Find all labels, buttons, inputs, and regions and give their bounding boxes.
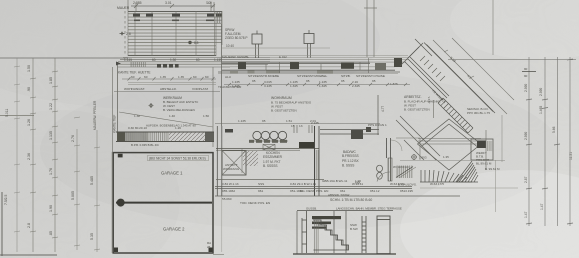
svg-text:60: 60 xyxy=(152,58,156,62)
chain A0 label xyxy=(5,109,9,117)
svg-text:1.26: 1.26 xyxy=(27,119,31,126)
svg-text:SITZFENST.MOEBEL: SITZFENST.MOEBEL xyxy=(297,74,328,78)
svg-text:1.465: 1.465 xyxy=(539,106,543,114)
svg-text:1.35: 1.35 xyxy=(160,75,166,79)
left edge plot line xyxy=(1,192,3,256)
dark threshold rect xyxy=(299,142,314,148)
left dim chain C labels xyxy=(71,135,75,200)
svg-text:2.990: 2.990 xyxy=(539,88,543,96)
survey symbol xyxy=(411,154,427,160)
svg-text:B. VERA.MELDUNGEN: B. VERA.MELDUNGEN xyxy=(163,108,195,112)
kitchen partition xyxy=(241,149,243,174)
entry passage lines xyxy=(418,139,481,145)
svg-text:GARAGE 1: GARAGE 1 xyxy=(161,171,183,176)
wing vertical dim 4.17 xyxy=(433,100,435,118)
left dimension chain B x=55 xyxy=(52,58,58,252)
drain arrow deck left xyxy=(116,62,121,66)
stair note small xyxy=(350,223,358,231)
svg-text:2.8: 2.8 xyxy=(126,32,131,36)
svg-text:60: 60 xyxy=(205,75,209,79)
faint vertical near entry xyxy=(501,115,503,162)
right dim vertical 4 xyxy=(567,57,573,226)
terrace deck with plank hatching xyxy=(128,11,222,56)
right dim vertical 1 labels xyxy=(524,84,528,218)
dim line y=91.5 xyxy=(114,91,220,93)
wing corridor upper wall xyxy=(424,43,495,114)
svg-text:SITZFENST.CHAISE: SITZFENST.CHAISE xyxy=(356,74,385,78)
svg-text:1.26: 1.26 xyxy=(175,126,181,130)
svg-text:SCHN. 1:TB M.1TB 80 B.60: SCHN. 1:TB M.1TB 80 B.60 xyxy=(330,198,372,202)
svg-text:2.8: 2.8 xyxy=(27,223,31,228)
garage 1 label xyxy=(161,171,183,176)
stair section left edge xyxy=(296,211,298,254)
svg-text:WINDFANG: WINDFANG xyxy=(223,167,240,171)
svg-text:2.990: 2.990 xyxy=(524,132,528,140)
svg-text:ABSTELLR.: ABSTELLR. xyxy=(160,87,177,91)
window band labels row xyxy=(218,74,398,89)
rotated dim 4.77 xyxy=(381,106,385,112)
entry corner post xyxy=(477,141,486,149)
small dim mark mid-room xyxy=(291,96,431,128)
svg-text:WOHNRAUM: WOHNRAUM xyxy=(271,96,292,100)
svg-text:ABNSW. SSSW: ABNSW. SSSW xyxy=(328,193,350,197)
left dim chain B labels xyxy=(49,77,53,236)
svg-text:1.40: 1.40 xyxy=(169,114,175,118)
room width dims xyxy=(134,114,209,118)
wing stair ladder rungs xyxy=(438,98,473,133)
svg-text:95: 95 xyxy=(252,79,256,83)
garage small marks bottom right xyxy=(207,241,211,249)
svg-text:W.63.17/5: W.63.17/5 xyxy=(430,182,444,186)
extra joist lines below dim row xyxy=(128,83,216,85)
svg-text:90: 90 xyxy=(524,67,528,71)
svg-text:.85: .85 xyxy=(49,231,53,236)
svg-text:1.51: 1.51 xyxy=(286,119,292,123)
svg-text:1.50: 1.50 xyxy=(27,65,31,72)
svg-text:PPS DRGN 1: PPS DRGN 1 xyxy=(368,123,387,127)
right dim vertical 2 labels xyxy=(539,88,544,210)
svg-text:5.35: 5.35 xyxy=(90,233,94,240)
interior dim labels y=80 xyxy=(131,75,209,79)
counter dark dashes under circles xyxy=(249,140,287,143)
svg-text:1.22: 1.22 xyxy=(49,103,53,110)
masonry note row above band xyxy=(222,55,287,59)
svg-text:1.85: 1.85 xyxy=(49,77,53,84)
garage corner columns xyxy=(114,154,213,252)
stair section top chord xyxy=(297,207,402,211)
svg-text:5.011: 5.011 xyxy=(5,109,9,117)
svg-text:1.76: 1.76 xyxy=(49,168,53,175)
deck posts / joist verticals xyxy=(128,11,222,56)
stair section title xyxy=(328,193,372,202)
svg-text:SITZFENSTR.MOEBE: SITZFENSTR.MOEBE xyxy=(248,74,279,78)
svg-text:26: 26 xyxy=(207,245,211,249)
svg-text:1.35: 1.35 xyxy=(178,75,184,79)
entry stair fan xyxy=(456,161,478,182)
left house verticals xyxy=(113,24,222,152)
cooktop circles xyxy=(251,131,288,141)
wing corner cross xyxy=(400,39,432,66)
right dim vertical 1 xyxy=(526,57,532,226)
glazed wall piers xyxy=(238,58,402,70)
svg-text:GUSSB.: GUSSB. xyxy=(306,207,317,211)
svg-text:95: 95 xyxy=(262,119,266,123)
garage outer walls xyxy=(113,153,213,253)
tree symbol 2.8 xyxy=(120,31,131,36)
faint reference line y=188 xyxy=(420,187,518,189)
svg-text:10 40: 10 40 xyxy=(226,44,234,48)
stairwell arrow xyxy=(396,167,416,179)
svg-text:1.90: 1.90 xyxy=(355,179,361,183)
kamin label block xyxy=(342,150,360,168)
wing end room xyxy=(471,139,493,160)
garage middle column xyxy=(117,199,125,207)
garage 2 label xyxy=(163,227,185,232)
entry fan steps baseline xyxy=(420,170,472,182)
svg-text:.90: .90 xyxy=(27,87,31,92)
wing end room label xyxy=(476,151,492,166)
svg-text:SITZB.: SITZB. xyxy=(341,74,351,78)
deck left edge dashed joist xyxy=(124,11,126,56)
top dim row over kitchen y=123 xyxy=(215,123,380,125)
sekisui note xyxy=(467,107,490,115)
svg-text:ZGED 80.578 P: ZGED 80.578 P xyxy=(225,36,248,40)
svg-text:ARBEITSZ.: ARBEITSZ. xyxy=(404,95,422,99)
svg-text:B. SSSSS: B. SSSSS xyxy=(263,164,278,168)
svg-text:AUFGEH. BODENBELAG 1.345 AT 90: AUFGEH. BODENBELAG 1.345 AT 90 xyxy=(146,124,196,128)
faint reference vertical x=495 xyxy=(495,160,497,212)
lower wing wall diagonals xyxy=(396,116,440,160)
kitchen label block xyxy=(263,151,283,168)
deck top dimension line y=6 xyxy=(131,4,215,8)
svg-text:3.01: 3.01 xyxy=(165,1,172,5)
svg-text:1.135: 1.135 xyxy=(49,131,53,140)
deck drain symbol xyxy=(188,41,198,45)
svg-text:2.36: 2.36 xyxy=(27,153,31,160)
wing dim diagonal 2 xyxy=(452,38,514,100)
svg-text:0.84 W.1.13: 0.84 W.1.13 xyxy=(222,182,239,186)
walkway dark studs xyxy=(157,64,179,68)
left dimension chain A x=33 xyxy=(30,58,36,252)
faint room line right of entry xyxy=(400,160,505,162)
left dimension chain A0 x=17 xyxy=(14,58,20,252)
entry side vertical xyxy=(485,130,487,170)
svg-text:PPX 301.BL.1.75: PPX 301.BL.1.75 xyxy=(467,111,490,115)
svg-text:0.84 29.4 B.W.1.11: 0.84 29.4 B.W.1.11 xyxy=(290,182,316,186)
stair hatch column xyxy=(313,220,319,253)
retaining wall hatched stripe above garage xyxy=(116,132,214,142)
west wall faint continuation xyxy=(221,196,223,252)
b99 level note xyxy=(485,167,500,171)
deck beam dark blocks row xyxy=(133,12,222,23)
svg-text:1.135: 1.135 xyxy=(238,119,246,123)
left dim chain A labels xyxy=(27,65,31,228)
plant symbol xyxy=(149,103,154,108)
svg-text:WOHNUNGST.: WOHNUNGST. xyxy=(124,87,145,91)
svg-text:E.012: E.012 xyxy=(279,55,287,59)
svg-text:95: 95 xyxy=(372,79,376,83)
svg-text:951.12: 951.12 xyxy=(370,189,380,193)
flue x-box xyxy=(263,145,275,151)
lower band dim line y=187 xyxy=(215,187,460,197)
svg-text:KANTE TIEF. HUETTE: KANTE TIEF. HUETTE xyxy=(118,71,151,75)
svg-text:7.5/2.5: 7.5/2.5 xyxy=(4,195,8,205)
svg-text:BL.99.61 M: BL.99.61 M xyxy=(476,162,492,166)
bad/wc wall and fixture xyxy=(377,138,403,182)
axis extension x=493 to page top xyxy=(492,0,494,55)
bottom-left base line xyxy=(0,254,57,256)
svg-text:B.P.B. 0.935 B.BL.DC: B.P.B. 0.935 B.BL.DC xyxy=(131,143,159,147)
walkway small labels xyxy=(124,58,222,62)
svg-text:2.990: 2.990 xyxy=(524,84,528,92)
svg-text:5.005: 5.005 xyxy=(71,191,75,200)
stairwell treads hatch xyxy=(396,166,413,179)
garage note box xyxy=(148,155,209,160)
lower band texts row1 xyxy=(222,179,444,205)
svg-text:0.30 80.20.10: 0.30 80.20.10 xyxy=(128,126,147,130)
walkway band under deck xyxy=(118,58,270,68)
left dimension chain D x=97 xyxy=(94,130,100,252)
svg-text:2.87: 2.87 xyxy=(524,176,528,183)
svg-text:1.90: 1.90 xyxy=(49,205,53,212)
garage bottom faint extension xyxy=(213,254,224,256)
wing dim diagonal 1 xyxy=(433,40,507,114)
svg-text:MAUER: MAUER xyxy=(117,6,130,10)
kitchen west wall xyxy=(217,126,222,196)
floor note xyxy=(131,143,159,147)
post symbol on axis x=257 xyxy=(252,31,262,59)
svg-text:ALU: ALU xyxy=(225,75,231,79)
svg-text:55.060: 55.060 xyxy=(222,197,232,201)
svg-text:MAUERW. PFEILER: MAUERW. PFEILER xyxy=(93,100,97,130)
rotated label KANTE TIEF xyxy=(93,100,117,133)
right dim vertical 2 xyxy=(542,57,548,226)
right dim tick text cluster xyxy=(522,67,536,78)
garage west dim vertical xyxy=(111,152,113,253)
small dark mark left of circles xyxy=(225,129,233,133)
post symbol on axis x=309 xyxy=(304,30,314,58)
svg-text:B. SSSS: B. SSSS xyxy=(342,164,354,168)
svg-text:955-1962: 955-1962 xyxy=(222,189,235,193)
entry hall diamond xyxy=(418,119,482,170)
deck top extension line x=128 to page top xyxy=(127,0,129,11)
right dim vertical 4 label xyxy=(569,152,573,160)
svg-text:2.76: 2.76 xyxy=(71,135,75,142)
svg-text:RG. DENK POS. EN: RG. DENK POS. EN xyxy=(300,189,328,193)
garage middle wall xyxy=(116,202,212,204)
WOHNUNGSTUER dim row xyxy=(124,87,208,91)
walkway hatch ticks xyxy=(130,62,146,67)
right dim horizontal line xyxy=(448,59,576,61)
svg-text:2.385: 2.385 xyxy=(133,1,142,5)
windfang label xyxy=(223,163,240,171)
svg-text:GBB.19A.B.WL.11: GBB.19A.B.WL.11 xyxy=(322,179,348,183)
svg-text:B. GESTUETZTEN: B. GESTUETZTEN xyxy=(271,109,297,113)
svg-text:B.SW: B.SW xyxy=(350,227,358,231)
dim ticks row y=84 xyxy=(224,83,410,86)
svg-text:4.77: 4.77 xyxy=(381,106,385,112)
svg-text:60: 60 xyxy=(144,75,148,79)
svg-text:95: 95 xyxy=(341,79,345,83)
svg-text:5.66: 5.66 xyxy=(552,126,556,133)
stair steps zigzag xyxy=(313,220,349,250)
stair section left post xyxy=(302,211,307,253)
svg-text:60: 60 xyxy=(196,58,200,62)
entry dim label xyxy=(443,155,449,159)
svg-text:B.MAULDVS.: B.MAULDVS. xyxy=(398,183,417,187)
kitchen top dim labels xyxy=(238,119,316,123)
axis extension pair x=367 to page top xyxy=(364,0,377,57)
svg-text:1.30: 1.30 xyxy=(170,58,176,62)
svg-text:90: 90 xyxy=(524,74,528,78)
svg-text:GARAGE 2: GARAGE 2 xyxy=(163,227,185,232)
svg-text:1.50: 1.50 xyxy=(203,114,209,118)
stair base line xyxy=(293,253,396,255)
svg-text:9513.195: 9513.195 xyxy=(400,189,413,193)
KANTE TIEF HUETTE note xyxy=(118,71,151,75)
short reference line left y=116 xyxy=(0,115,34,117)
svg-text:-4.17-: -4.17- xyxy=(427,96,431,104)
svg-text:1.135: 1.135 xyxy=(214,58,222,62)
svg-text:8.8: 8.8 xyxy=(194,41,199,45)
wing corridor note xyxy=(431,89,446,104)
left dim chain D labels xyxy=(90,176,94,240)
left dimension chain C x=77 xyxy=(74,117,80,250)
svg-text:B. 99.61 M: B. 99.61 M xyxy=(485,167,500,171)
long site reference line left xyxy=(0,57,128,59)
svg-text:VORPLATZ: VORPLATZ xyxy=(192,87,208,91)
interior dim line y=81 xyxy=(122,77,216,81)
right dim vertical 3 xyxy=(554,57,560,226)
stair door frame xyxy=(377,216,390,254)
wing stair ladder rails xyxy=(438,98,473,133)
windfang room box xyxy=(222,151,246,176)
svg-text:60: 60 xyxy=(193,75,197,79)
arbeitsz label block xyxy=(404,95,441,112)
svg-text:1.135: 1.135 xyxy=(124,58,132,62)
wc walls near wing xyxy=(396,138,420,160)
svg-text:ESSZIMMER: ESSZIMMER xyxy=(263,155,283,159)
kitchen north wall xyxy=(216,149,319,151)
svg-text:LANGSSCHN. BAHN. MEMBR. STEG T: LANGSSCHN. BAHN. MEMBR. STEG TERRASSE xyxy=(336,207,402,211)
kitchen wall post stems xyxy=(294,125,312,133)
right dim vertical 3 label xyxy=(552,126,556,133)
floor slope diagonal xyxy=(119,112,213,128)
svg-text:1.47: 1.47 xyxy=(524,211,528,218)
window sill gray blocks xyxy=(230,71,333,74)
top extension pair x=211 xyxy=(211,2,214,11)
svg-text:2.135: 2.135 xyxy=(311,121,319,125)
wing corridor lower wall xyxy=(405,57,449,100)
south glazed wall band xyxy=(218,62,406,73)
stair mid verticals xyxy=(334,211,346,253)
wing dim labels rotated xyxy=(449,56,472,80)
svg-text:(BEI NICHT 34 SONST 53,38 ERLO: (BEI NICHT 34 SONST 53,38 ERLOES) xyxy=(149,157,206,161)
note text right of deck xyxy=(225,28,248,48)
wohnraum label block xyxy=(271,96,312,113)
wing corridor mid marks xyxy=(420,56,445,81)
svg-text:KANTE TIEF: KANTE TIEF xyxy=(113,115,117,133)
top small marks above band x=210 xyxy=(206,1,211,5)
deck top dim labels xyxy=(117,1,212,10)
small texts above retaining wall xyxy=(128,126,181,130)
werkraum label block xyxy=(163,96,199,112)
deck top extension line x=136 xyxy=(135,2,137,11)
entry floor diagonal hatch xyxy=(243,151,258,166)
long faint horizontals above band xyxy=(222,48,408,60)
svg-text:B.FREISSS: B.FREISSS xyxy=(342,154,359,158)
kamin walls xyxy=(320,130,379,135)
wi wa texts xyxy=(355,165,410,185)
svg-text:60: 60 xyxy=(131,75,135,79)
svg-text:13: 13 xyxy=(299,124,303,128)
deck second label row xyxy=(134,20,214,22)
svg-text:1.0: 1.0 xyxy=(206,1,211,5)
svg-text:TOD. DENK POS. EN: TOD. DENK POS. EN xyxy=(240,201,270,205)
svg-text:961: 961 xyxy=(258,189,263,193)
stair landing bar xyxy=(312,216,341,229)
glazing mullions xyxy=(266,58,369,73)
svg-text:11.21: 11.21 xyxy=(569,152,573,160)
kamin dark blocks xyxy=(351,127,371,139)
svg-text:B. GESTUETZTEN: B. GESTUETZTEN xyxy=(404,108,430,112)
kitchen south wall xyxy=(216,179,324,181)
svg-text:PR.1.12 BX: PR.1.12 BX xyxy=(342,159,360,163)
stair ladder xyxy=(362,216,366,253)
svg-text:1.875: 1.875 xyxy=(390,82,398,86)
rotated label far left xyxy=(4,195,8,205)
svg-text:5.485: 5.485 xyxy=(90,176,94,185)
svg-text:1.47: 1.47 xyxy=(540,203,544,210)
mid wall with hatch x=316 xyxy=(315,126,320,196)
wohn east wall x=378 xyxy=(377,95,379,135)
svg-text:MAUERW. 60/30/BL: MAUERW. 60/30/BL xyxy=(222,55,249,59)
svg-text:1.35: 1.35 xyxy=(443,155,449,159)
svg-text:95: 95 xyxy=(306,79,310,83)
svg-text:SSS: SSS xyxy=(258,182,264,186)
